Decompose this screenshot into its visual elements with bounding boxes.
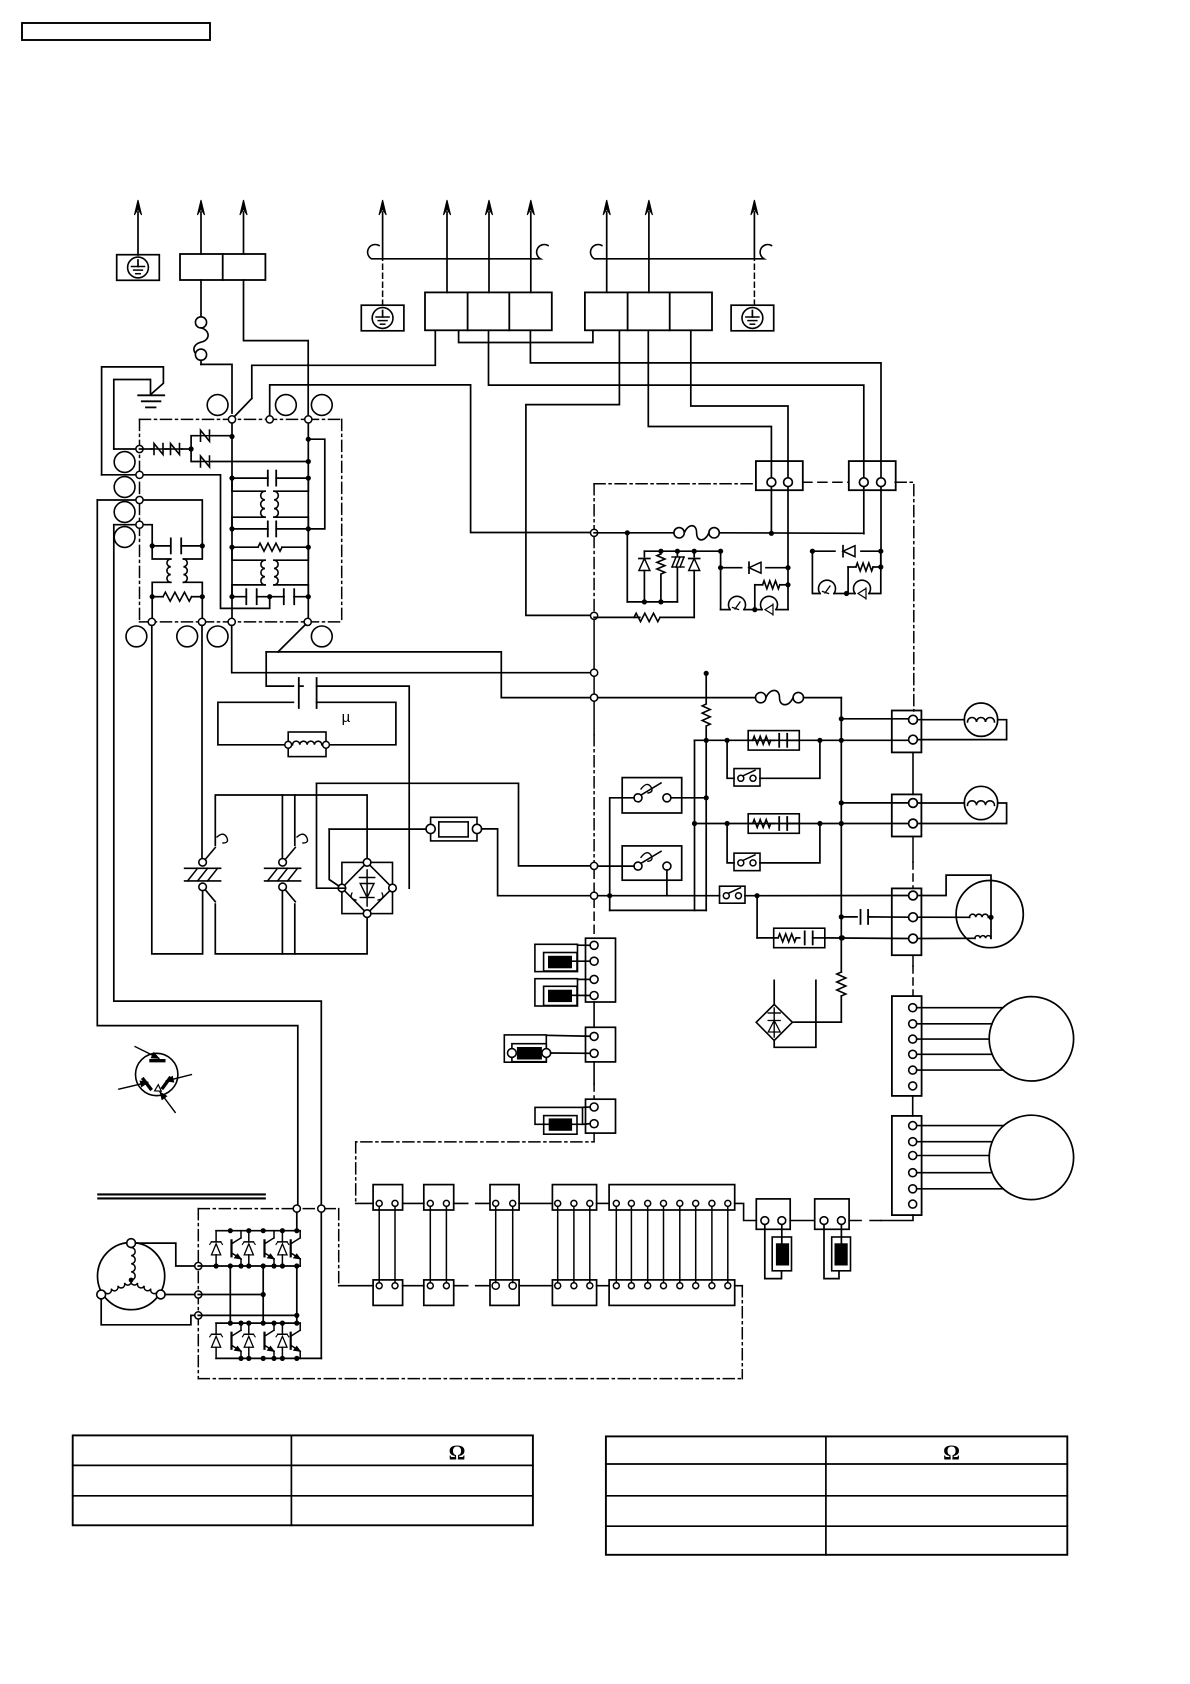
wire box left to bridge area (329, 828, 426, 830)
filter entry node n1 (114, 448, 140, 450)
thermal protector 49C-2 (279, 859, 287, 867)
svg-text:Ω: Ω (449, 1441, 466, 1465)
RC snubber box RC4 (756, 896, 758, 938)
connector ring R2 (276, 395, 297, 416)
MOT wire W (101, 1299, 195, 1325)
sensor connector CN-S1 (756, 1199, 790, 1229)
connector ring R6 (114, 502, 135, 523)
FM2 return loop (917, 803, 1006, 824)
varistor ZNR3 branch (191, 436, 198, 449)
filter bottom node b3 (228, 618, 235, 625)
terminal block TB1 (2-pole) (180, 254, 265, 280)
driver line from CN1 pin2 (785, 565, 790, 570)
arrow lead L2 (488, 212, 490, 292)
IGBT Q3 (281, 1231, 283, 1242)
diode D3 (721, 567, 742, 569)
thermistor TH4 (535, 1107, 583, 1124)
choke L1 (152, 546, 171, 559)
bypass jog on rail B (306, 437, 311, 442)
wire resistor-box feed to bridge left (329, 829, 339, 886)
link CN-MTR1 to CN-MTR2 (912, 1096, 914, 1116)
CM wiring (917, 875, 991, 938)
phase drop links (229, 1266, 231, 1323)
connector ring R5 (114, 477, 135, 498)
board connector P3 bottom (490, 1280, 519, 1306)
wire jumper TB2 to TB3 (459, 330, 593, 342)
capacitor C7 (841, 916, 857, 918)
RY-A wiring right (671, 797, 706, 799)
resistor R1 (150, 594, 155, 599)
phase node W (195, 1312, 202, 1319)
resistor R5 (755, 584, 763, 586)
relay contact S2 parallel (727, 824, 734, 863)
wire TB3-3 to CN-box1 pin2 (691, 330, 788, 609)
connector ring R4 (114, 452, 135, 473)
noise filter PCB boundary (140, 418, 342, 420)
wire cap to bridge right (317, 686, 410, 888)
coil unit under microcomputer box (288, 732, 326, 757)
power switch SW1 blade (234, 398, 252, 417)
bottom chain to boundary (735, 1285, 743, 1287)
link CN-COMP to CN-PWB1 (912, 955, 914, 966)
zener D2 (693, 551, 695, 556)
thermal protector 49C-1 (199, 859, 207, 867)
RY-B wiring (598, 865, 634, 867)
board connector P2 top (424, 1185, 454, 1210)
top chain links (356, 1202, 373, 1204)
inverter bottom bus DC- (216, 1357, 321, 1359)
RC snubber box RC1 (748, 731, 799, 751)
connector CN-box1 (756, 461, 803, 490)
feed filter-b2 to protector1 top (201, 626, 203, 859)
wire bridge left to relay line (317, 783, 346, 888)
IGBT Q5 (248, 1323, 250, 1334)
relay coil RY1 (721, 609, 730, 611)
bridge internal diode (366, 870, 368, 906)
terminal block TB3 (3-pole) (585, 292, 712, 330)
title box (empty) (22, 23, 210, 40)
relay contact S1 parallel (727, 740, 734, 778)
thermal fuse F1 (200, 280, 202, 317)
varistor ZNR4 branch (191, 449, 198, 462)
earth symbol E3 with dashed lead (731, 305, 774, 331)
arrow lead L4 (606, 212, 608, 292)
board connector P1 bottom (373, 1280, 403, 1306)
fan motor coil FM2 (964, 786, 997, 819)
filter entry node n2 (102, 474, 140, 476)
PCB boundary below CN-TH3 (356, 1133, 594, 1142)
resistance table 1 (73, 1435, 533, 1525)
diamond bottom loop (774, 980, 816, 1047)
wire TB3-2 to CN-box1 (648, 330, 771, 533)
X-capacitors C4 C5 (229, 594, 234, 599)
capacitor C2 (229, 476, 234, 481)
connector ring R8 (126, 626, 147, 647)
surge network bottom rail (627, 601, 677, 603)
RY-A wiring left (610, 798, 634, 911)
surge network top rail (625, 530, 630, 535)
FM1 return loop (917, 720, 1006, 740)
IGBT Q1 (215, 1231, 217, 1242)
bottom chain links (339, 1285, 373, 1287)
phase rail V (198, 1294, 263, 1296)
relay contact box RY-A (622, 778, 682, 813)
connector CN-FAN1 (892, 711, 922, 753)
reactor/posistor box (431, 817, 477, 841)
wire fuse to switch contact (201, 364, 232, 413)
protective earth symbol E1 (top left) (117, 255, 160, 281)
connector ring R1 (207, 395, 228, 416)
IGBT Q2 (248, 1231, 250, 1242)
IGBT Q4 (215, 1323, 217, 1334)
wire filter node to fuse line (270, 385, 591, 533)
resistor R6 (878, 564, 883, 569)
filter rail B (x=308) (307, 423, 309, 618)
arrow lead L1 (446, 212, 448, 292)
filter bottom node b1 (148, 618, 155, 625)
board connector P2 bottom (424, 1280, 454, 1306)
PCB entry node c-N (591, 612, 598, 619)
board connector P4 bottom (552, 1280, 596, 1306)
surge module diamond D5 (756, 1004, 792, 1040)
wire rail to CN-FAN1 pin1 (841, 718, 908, 720)
link CN-FAN2 to CN-COMP (912, 837, 914, 863)
phase rail U (198, 1265, 300, 1267)
PCB entry node c3 (591, 669, 598, 676)
filter rail A (x=232) (231, 423, 233, 618)
row1 wire to CN-FAN1 (695, 739, 909, 741)
cable bundle brace 2 (591, 245, 772, 259)
PCB entry node c4 (591, 694, 598, 701)
thermistor TH1 (535, 944, 578, 971)
phase node V (195, 1291, 202, 1298)
phase rail W (198, 1314, 296, 1316)
wire SW2 to microcomputer cap (266, 652, 293, 686)
fan motor coil FM1 (964, 703, 997, 736)
filter entry node n3 (97, 500, 202, 543)
relay contact S3 (598, 895, 720, 897)
connector ring R3 (311, 395, 332, 416)
wire TB2-2 to CN-box2 pin1 (489, 330, 864, 533)
compressor motor MOT (98, 1243, 165, 1310)
board connector P3 top (490, 1185, 519, 1210)
svg-text:Ω: Ω (943, 1441, 960, 1465)
capacitor C1 (150, 543, 155, 548)
interboard wires (378, 1207, 380, 1283)
fuse F3 line to power rail (598, 697, 756, 699)
earth symbol E2 with bundle (361, 305, 404, 331)
relay coil RY2 (812, 551, 820, 593)
connector CN-TH2 (2p) (586, 1027, 616, 1062)
wire rail to CN-FAN2 pin1 (841, 802, 908, 804)
board connector P4 top (552, 1185, 596, 1210)
row2 wire to CN-FAN2 (695, 823, 909, 825)
inverter PCB boundary (198, 1208, 338, 1210)
wire SW2 to PCB fuse node (278, 652, 591, 698)
arrestor symbol (676, 551, 678, 556)
wire box right to PCB node (482, 829, 591, 896)
wire TB1-R to noise filter (244, 280, 309, 416)
choke L2 (231, 478, 233, 491)
fan motor M4 (989, 1115, 1073, 1199)
choke L3 (232, 547, 265, 560)
connector CN-MTR1 (6p) (892, 996, 922, 1096)
phase node U (195, 1262, 202, 1269)
MOT wire U (136, 1243, 195, 1266)
inverter lower bus link (216, 1322, 300, 1324)
resistor R2 (229, 545, 234, 550)
fuse F2 (594, 532, 674, 534)
diamond stub top (773, 980, 775, 1004)
connector ring R10 (207, 626, 228, 647)
wire filter-b3 to PCB node (232, 626, 591, 673)
chassis earth bars (138, 394, 164, 396)
zener D1 (643, 551, 645, 556)
link CN-FAN1 to CN-FAN2 (912, 752, 914, 794)
switch SW2 blade at filter output (278, 625, 306, 652)
compressor aux motor CM (956, 881, 1023, 948)
PCB boundary with entry nodes (593, 484, 595, 529)
diamond right wire (792, 1021, 841, 1023)
inverter top bus DC+ (216, 1230, 300, 1232)
wire TB2-3 to CN-box2 pin2 (530, 330, 881, 552)
connector CN-FAN2 (892, 794, 922, 836)
connector CN-TH3 (2p) (586, 1099, 616, 1133)
connector CN-COMP (892, 888, 922, 955)
svg-text:µ: µ (342, 709, 351, 726)
power rail from fuse (840, 698, 842, 972)
protector top rail (215, 795, 367, 859)
wire TB2-1 to power switch (252, 330, 435, 398)
DC bus wire A (97, 500, 297, 1205)
MOT wire V (165, 1294, 195, 1296)
feeder x=706.2 with resistor R7 (705, 673, 707, 703)
capacitor C3 (229, 526, 234, 531)
inverter DC- node (318, 1205, 325, 1212)
diode D4 (810, 549, 815, 554)
resistor R3 (660, 551, 662, 553)
resistance table 2 (606, 1436, 1067, 1554)
photo-triac PC1 (755, 609, 762, 611)
relay contact box RY-B (622, 846, 682, 880)
arrow lead L3 (530, 212, 532, 292)
wire line1 across (to PCB) (317, 783, 591, 866)
fan motor M3 (989, 997, 1073, 1081)
microcomputer unit box (218, 702, 294, 745)
feed filter-b1 to protector1 bottom (152, 626, 203, 954)
inverter DC+ node (293, 1205, 300, 1212)
board connector P5 bottom (609, 1280, 735, 1306)
sensor thermistor TH6 (832, 1237, 851, 1271)
chain to sensor line (735, 1203, 757, 1220)
DC bus wire B (114, 525, 321, 1205)
thermistor TH2 (535, 979, 578, 1006)
connector ring R7 (114, 527, 135, 548)
filter entry node n4 (114, 525, 152, 543)
double bus mark (98, 1193, 264, 1195)
PCB entry node c6 (591, 892, 598, 899)
link CN-TH2 to CN-TH3 (593, 1062, 595, 1084)
fan symbol (136, 1053, 178, 1095)
board connector P5 top (609, 1185, 735, 1210)
arrow lead L5 (648, 212, 650, 292)
cable bundle brace 1 (368, 245, 548, 259)
filter bottom node b4 (304, 618, 311, 625)
varistor chain ZNR1-ZNR2 (140, 448, 153, 450)
RC snubber box RC2 (748, 814, 799, 834)
PCB boundary horizontal to CN boxes (594, 483, 756, 485)
wire TB3-1 to PCB node N2 (526, 330, 620, 615)
photo-triac PC2 (848, 593, 855, 595)
resistor R4 to PCB node (594, 616, 640, 618)
lever curl marks (217, 834, 228, 843)
connector CN-box2 (849, 461, 896, 490)
terminal block TB2 (3-pole) (425, 292, 552, 330)
vertical feed x=720.6 (720, 551, 722, 609)
bottom link wire (610, 909, 707, 911)
sensor line links (790, 1220, 815, 1222)
connector ring R11 (311, 626, 332, 647)
PCB entry node c-fuse (591, 529, 598, 536)
capacitor C6 at microcomputer (298, 678, 300, 708)
board connector P1 top (373, 1185, 403, 1210)
sensor thermistor TH5 (772, 1237, 791, 1271)
protector bottom rail (215, 904, 367, 954)
connector ring R9 (177, 626, 198, 647)
IGBT Q6 (281, 1323, 283, 1334)
PCB entry node c5 (591, 862, 598, 869)
feeder x=694.5 (694, 740, 696, 910)
diode bridge DB1 (342, 862, 393, 913)
link CN-TH1 to CN-TH2 (593, 1002, 595, 1027)
sensor connector CN-S2 (815, 1199, 849, 1229)
filter bottom node b2 (198, 618, 205, 625)
chassis ground bracket (102, 367, 164, 475)
connector CN-MTR2 (6p) (892, 1116, 922, 1215)
thermistor TH3 with terminals (504, 1035, 546, 1062)
connector CN-TH1 (4p) (586, 938, 616, 1002)
